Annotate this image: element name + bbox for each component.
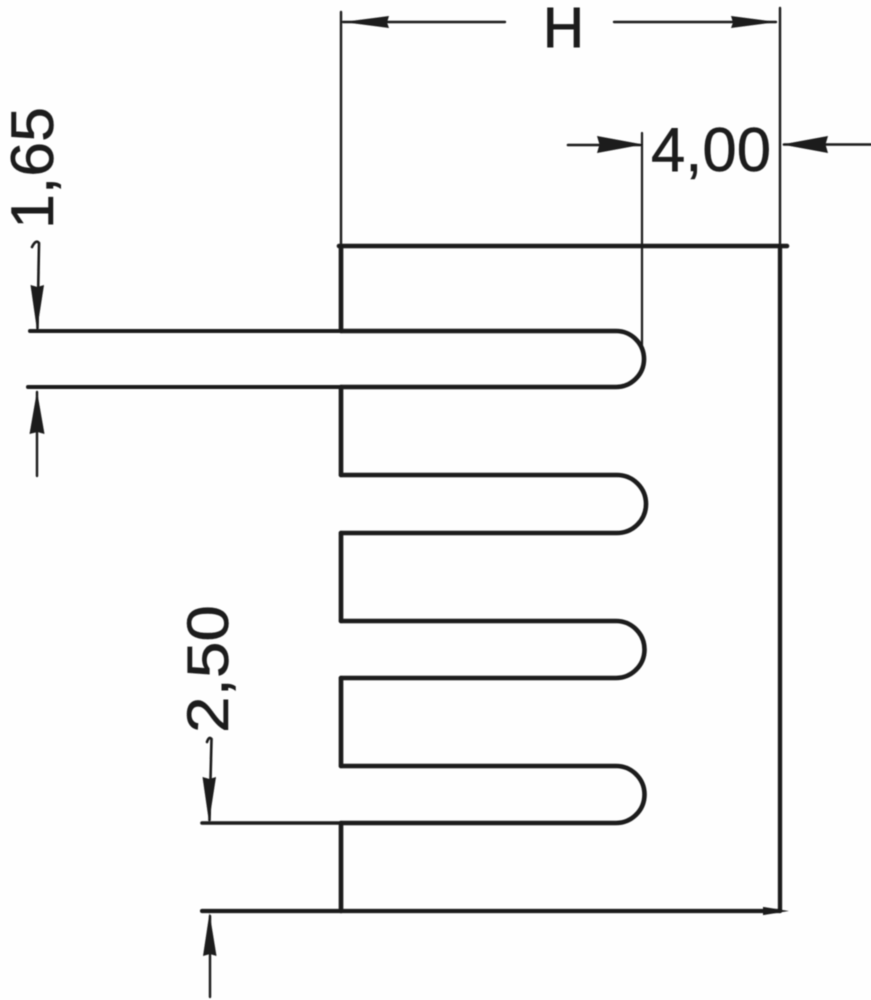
bottom edge right arrowhead [763, 907, 789, 915]
H dimension left extension line [340, 12, 342, 246]
left face segment 4 [339, 678, 344, 766]
bottom edge of profile [202, 909, 780, 913]
left face segment 1 [339, 246, 344, 331]
4,00 dimension extension line [641, 133, 643, 345]
H dimension right arrowhead [731, 16, 777, 28]
slot 4 rounded end [341, 766, 645, 823]
left face segment 2 [339, 387, 344, 475]
H dimension right extension line [779, 8, 781, 246]
4,00 dimension left arrow line [568, 144, 640, 147]
slot 2 rounded end [341, 475, 646, 533]
H dimension left arrowhead [343, 16, 389, 28]
slot 4 bottom extension line [202, 821, 341, 825]
right face of profile [778, 246, 782, 911]
H dimension line right part [614, 21, 776, 23]
2,50 upper leader line [207, 738, 212, 820]
svg-text:2,50: 2,50 [176, 605, 241, 733]
slot 1 bottom extension line [28, 385, 341, 389]
svg-text:H: H [543, 0, 584, 60]
top edge of profile [339, 244, 787, 249]
1,65 upper leader line [32, 242, 39, 328]
1,65 lower leader line [36, 392, 38, 476]
1,65 upper arrowhead [31, 285, 45, 330]
left face segment 5 [339, 823, 344, 911]
slot 1 top extension line [30, 329, 341, 333]
slot 3 rounded end [341, 621, 645, 678]
4,00 dimension right arrow line [784, 143, 871, 146]
svg-text:1,65: 1,65 [0, 107, 66, 229]
H dimension line left part [343, 21, 505, 23]
2,50 upper arrowhead [203, 777, 217, 822]
1,65 lower arrowhead [30, 391, 45, 434]
slot 1 rounded end [341, 331, 644, 387]
left face segment 3 [339, 533, 344, 621]
2,50 lower arrowhead [203, 913, 217, 956]
svg-text:4,00: 4,00 [651, 116, 771, 185]
4,00 right arrowhead [782, 136, 828, 153]
2,50 lower leader line [209, 916, 211, 997]
4,00 left arrowhead [597, 136, 643, 153]
